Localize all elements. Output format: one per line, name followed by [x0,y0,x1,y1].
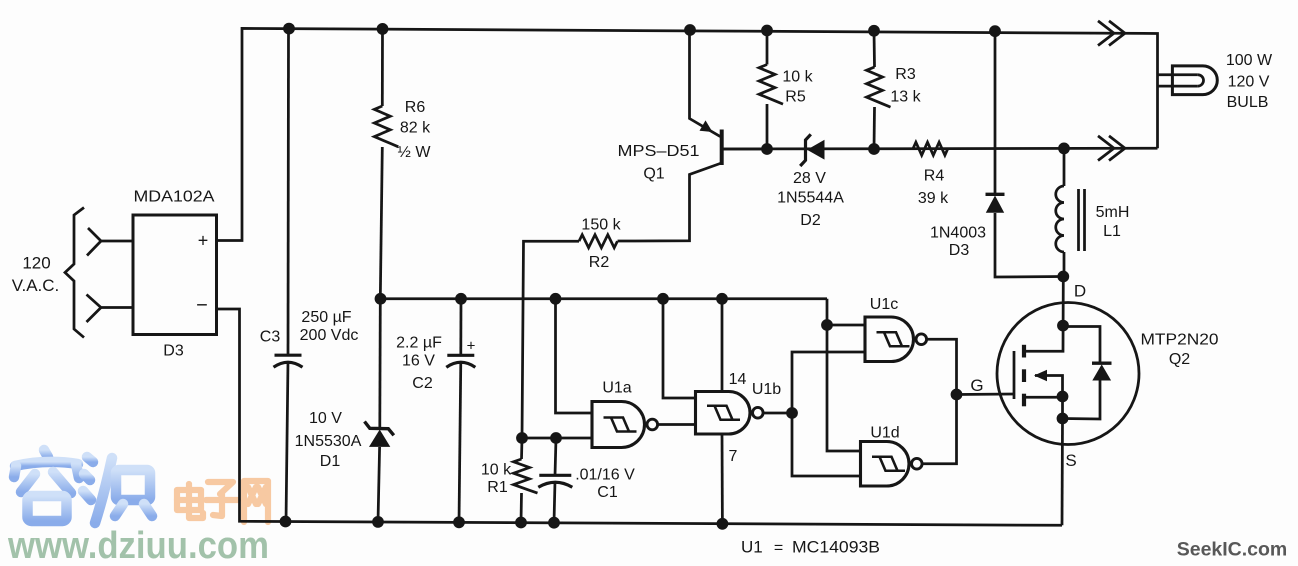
svg-text:U1a: U1a [602,380,631,397]
svg-text:MTP2N20: MTP2N20 [1141,332,1219,349]
svg-text:R5: R5 [785,89,806,106]
svg-text:MPS–D51: MPS–D51 [618,143,700,160]
svg-text:Q1: Q1 [643,166,664,183]
svg-text:39 k: 39 k [918,190,949,207]
svg-text:U1d: U1d [870,425,899,442]
svg-text:C1: C1 [597,484,618,501]
svg-text:D1: D1 [320,453,341,470]
svg-text:2.2 µF: 2.2 µF [396,335,442,352]
svg-text:R2: R2 [589,254,610,271]
svg-text:www.dziuu.com: www.dziuu.com [7,525,269,566]
svg-text:250 µF: 250 µF [301,309,351,326]
svg-text:=: = [774,540,783,557]
svg-text:200 Vdc: 200 Vdc [300,327,359,344]
svg-text:10 k: 10 k [782,69,813,86]
svg-text:120: 120 [22,254,50,273]
svg-text:+: + [467,338,476,355]
svg-text:28 V: 28 V [793,170,826,187]
svg-text:10 V: 10 V [309,410,342,427]
svg-text:1N4003: 1N4003 [930,225,986,242]
svg-text:MC14093B: MC14093B [792,538,880,557]
svg-text:C3: C3 [260,329,281,346]
svg-text:R4: R4 [924,168,945,185]
svg-text:L1: L1 [1103,223,1121,240]
svg-text:−: − [196,295,208,317]
svg-text:V.A.C.: V.A.C. [12,276,60,295]
svg-text:+: + [198,231,209,251]
svg-text:C2: C2 [412,375,433,392]
svg-text:G: G [970,376,983,395]
svg-text:R6: R6 [405,99,426,116]
svg-text:U1: U1 [741,538,763,557]
svg-text:R1: R1 [487,479,508,496]
svg-text:D: D [1074,282,1086,301]
svg-text:U1c: U1c [870,296,898,313]
svg-text:BULB: BULB [1227,94,1269,111]
svg-text:7: 7 [729,448,738,465]
svg-text:1N5530A: 1N5530A [295,433,362,450]
svg-text:16 V: 16 V [402,353,435,370]
svg-text:MDA102A: MDA102A [134,189,215,206]
svg-text:1N5544A: 1N5544A [777,190,844,207]
svg-text:10 k: 10 k [481,462,512,479]
svg-text:100 W: 100 W [1226,52,1273,69]
svg-text:D2: D2 [800,212,821,229]
svg-text:5mH: 5mH [1096,204,1130,221]
svg-text:½ W: ½ W [398,144,432,161]
svg-text:150 k: 150 k [581,217,621,234]
svg-text:82 k: 82 k [400,120,431,137]
svg-text:R3: R3 [895,66,916,83]
svg-text:U1b: U1b [752,381,781,398]
svg-text:D3: D3 [949,242,970,259]
svg-text:SeekIC.com: SeekIC.com [1177,539,1288,561]
svg-text:D3: D3 [163,343,184,360]
svg-text:120 V: 120 V [1228,73,1270,90]
svg-text:Q2: Q2 [1169,351,1190,368]
svg-text:14: 14 [729,371,747,388]
svg-text:.01/16 V: .01/16 V [575,467,635,484]
svg-text:13 k: 13 k [890,89,921,106]
svg-text:S: S [1065,451,1076,470]
